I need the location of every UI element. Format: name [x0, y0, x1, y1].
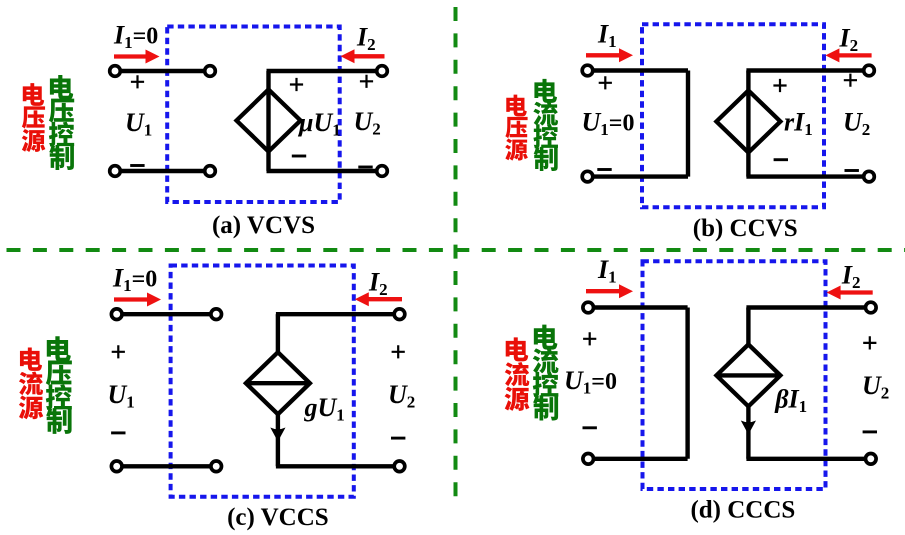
svg-text:(b) CCVS: (b) CCVS [693, 215, 798, 242]
svg-text:I1=0: I1=0 [113, 21, 158, 53]
svg-text:I1=0: I1=0 [112, 264, 157, 296]
svg-text:(a) VCVS: (a) VCVS [212, 212, 315, 239]
svg-text:(c) VCCS: (c) VCCS [227, 504, 329, 531]
svg-text:(d) CCCS: (d) CCCS [690, 497, 795, 524]
svg-text:U1=0: U1=0 [564, 366, 617, 398]
svg-text:U1=0: U1=0 [582, 108, 635, 140]
